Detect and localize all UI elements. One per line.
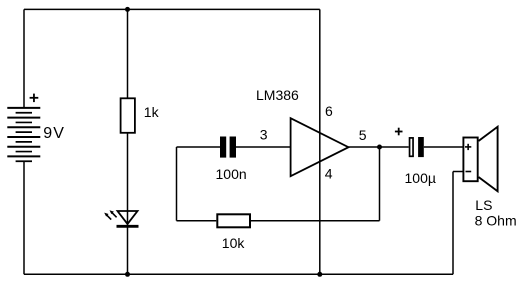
svg-text:8 Ohm: 8 Ohm	[475, 213, 517, 229]
svg-text:4: 4	[325, 166, 333, 182]
svg-text:100µ: 100µ	[405, 170, 436, 186]
wire top rail	[24, 8, 320, 10]
capacitor C1 100n plates	[220, 137, 226, 158]
wire C1 left to corner	[177, 146, 221, 148]
svg-text:LS: LS	[475, 197, 492, 213]
speaker LS body	[463, 138, 477, 182]
svg-text:1k: 1k	[144, 104, 160, 120]
junction dot bottom rail / LED branch	[125, 272, 130, 277]
svg-text:5: 5	[359, 127, 367, 143]
wire speaker minus horizontal	[453, 171, 463, 173]
LED emission arrow 2	[104, 213, 111, 220]
svg-text:10k: 10k	[222, 235, 246, 251]
wire feedback bottom right from R2	[250, 220, 380, 222]
wire R1 bottom through LED to bottom rail	[127, 133, 129, 274]
wire feedback bottom left to R2	[177, 220, 217, 222]
speaker plus terminal mark	[465, 144, 471, 150]
LED D1	[118, 211, 138, 224]
speaker cone	[479, 127, 498, 191]
svg-text:3: 3	[260, 127, 268, 143]
C2 plus sign	[395, 128, 403, 136]
wire feedback right vertical to output node	[379, 147, 381, 221]
wire feedback left vertical	[176, 147, 178, 221]
wire left rail lower (battery -)	[23, 161, 25, 274]
wire bottom rail	[24, 273, 453, 275]
wire input pin3 to op-amp	[236, 146, 291, 148]
junction dot bottom rail / pin4	[317, 272, 322, 277]
LED cathode bar	[117, 225, 139, 228]
svg-text:100n: 100n	[216, 166, 247, 182]
junction dot top rail / R1	[125, 7, 130, 12]
capacitor C2 100u negative plate (solid)	[418, 137, 424, 157]
wire R1 branch top	[127, 9, 129, 98]
wire speaker minus vertical to bottom rail	[452, 172, 454, 275]
battery plus sign	[30, 94, 39, 103]
junction node output pin5	[377, 145, 382, 150]
resistor R1 1k	[121, 98, 135, 133]
speaker minus terminal mark	[466, 171, 472, 173]
capacitor C2 100u positive plate (hollow)	[410, 138, 414, 156]
LED emission arrow 1	[110, 210, 117, 217]
svg-text:9V: 9V	[43, 125, 65, 142]
svg-text:6: 6	[325, 103, 333, 119]
wire C2 to speaker	[424, 146, 464, 148]
battery BT1 9V	[7, 108, 40, 161]
op-amp U1 LM386 triangle	[291, 118, 349, 176]
wire pin6-pin4 vertical (V+ / GND line)	[319, 9, 321, 274]
wire left rail upper (battery +)	[23, 9, 25, 108]
resistor R2 10k	[217, 214, 250, 227]
wire output pin5 to C2	[349, 146, 409, 148]
svg-text:LM386: LM386	[256, 87, 299, 103]
